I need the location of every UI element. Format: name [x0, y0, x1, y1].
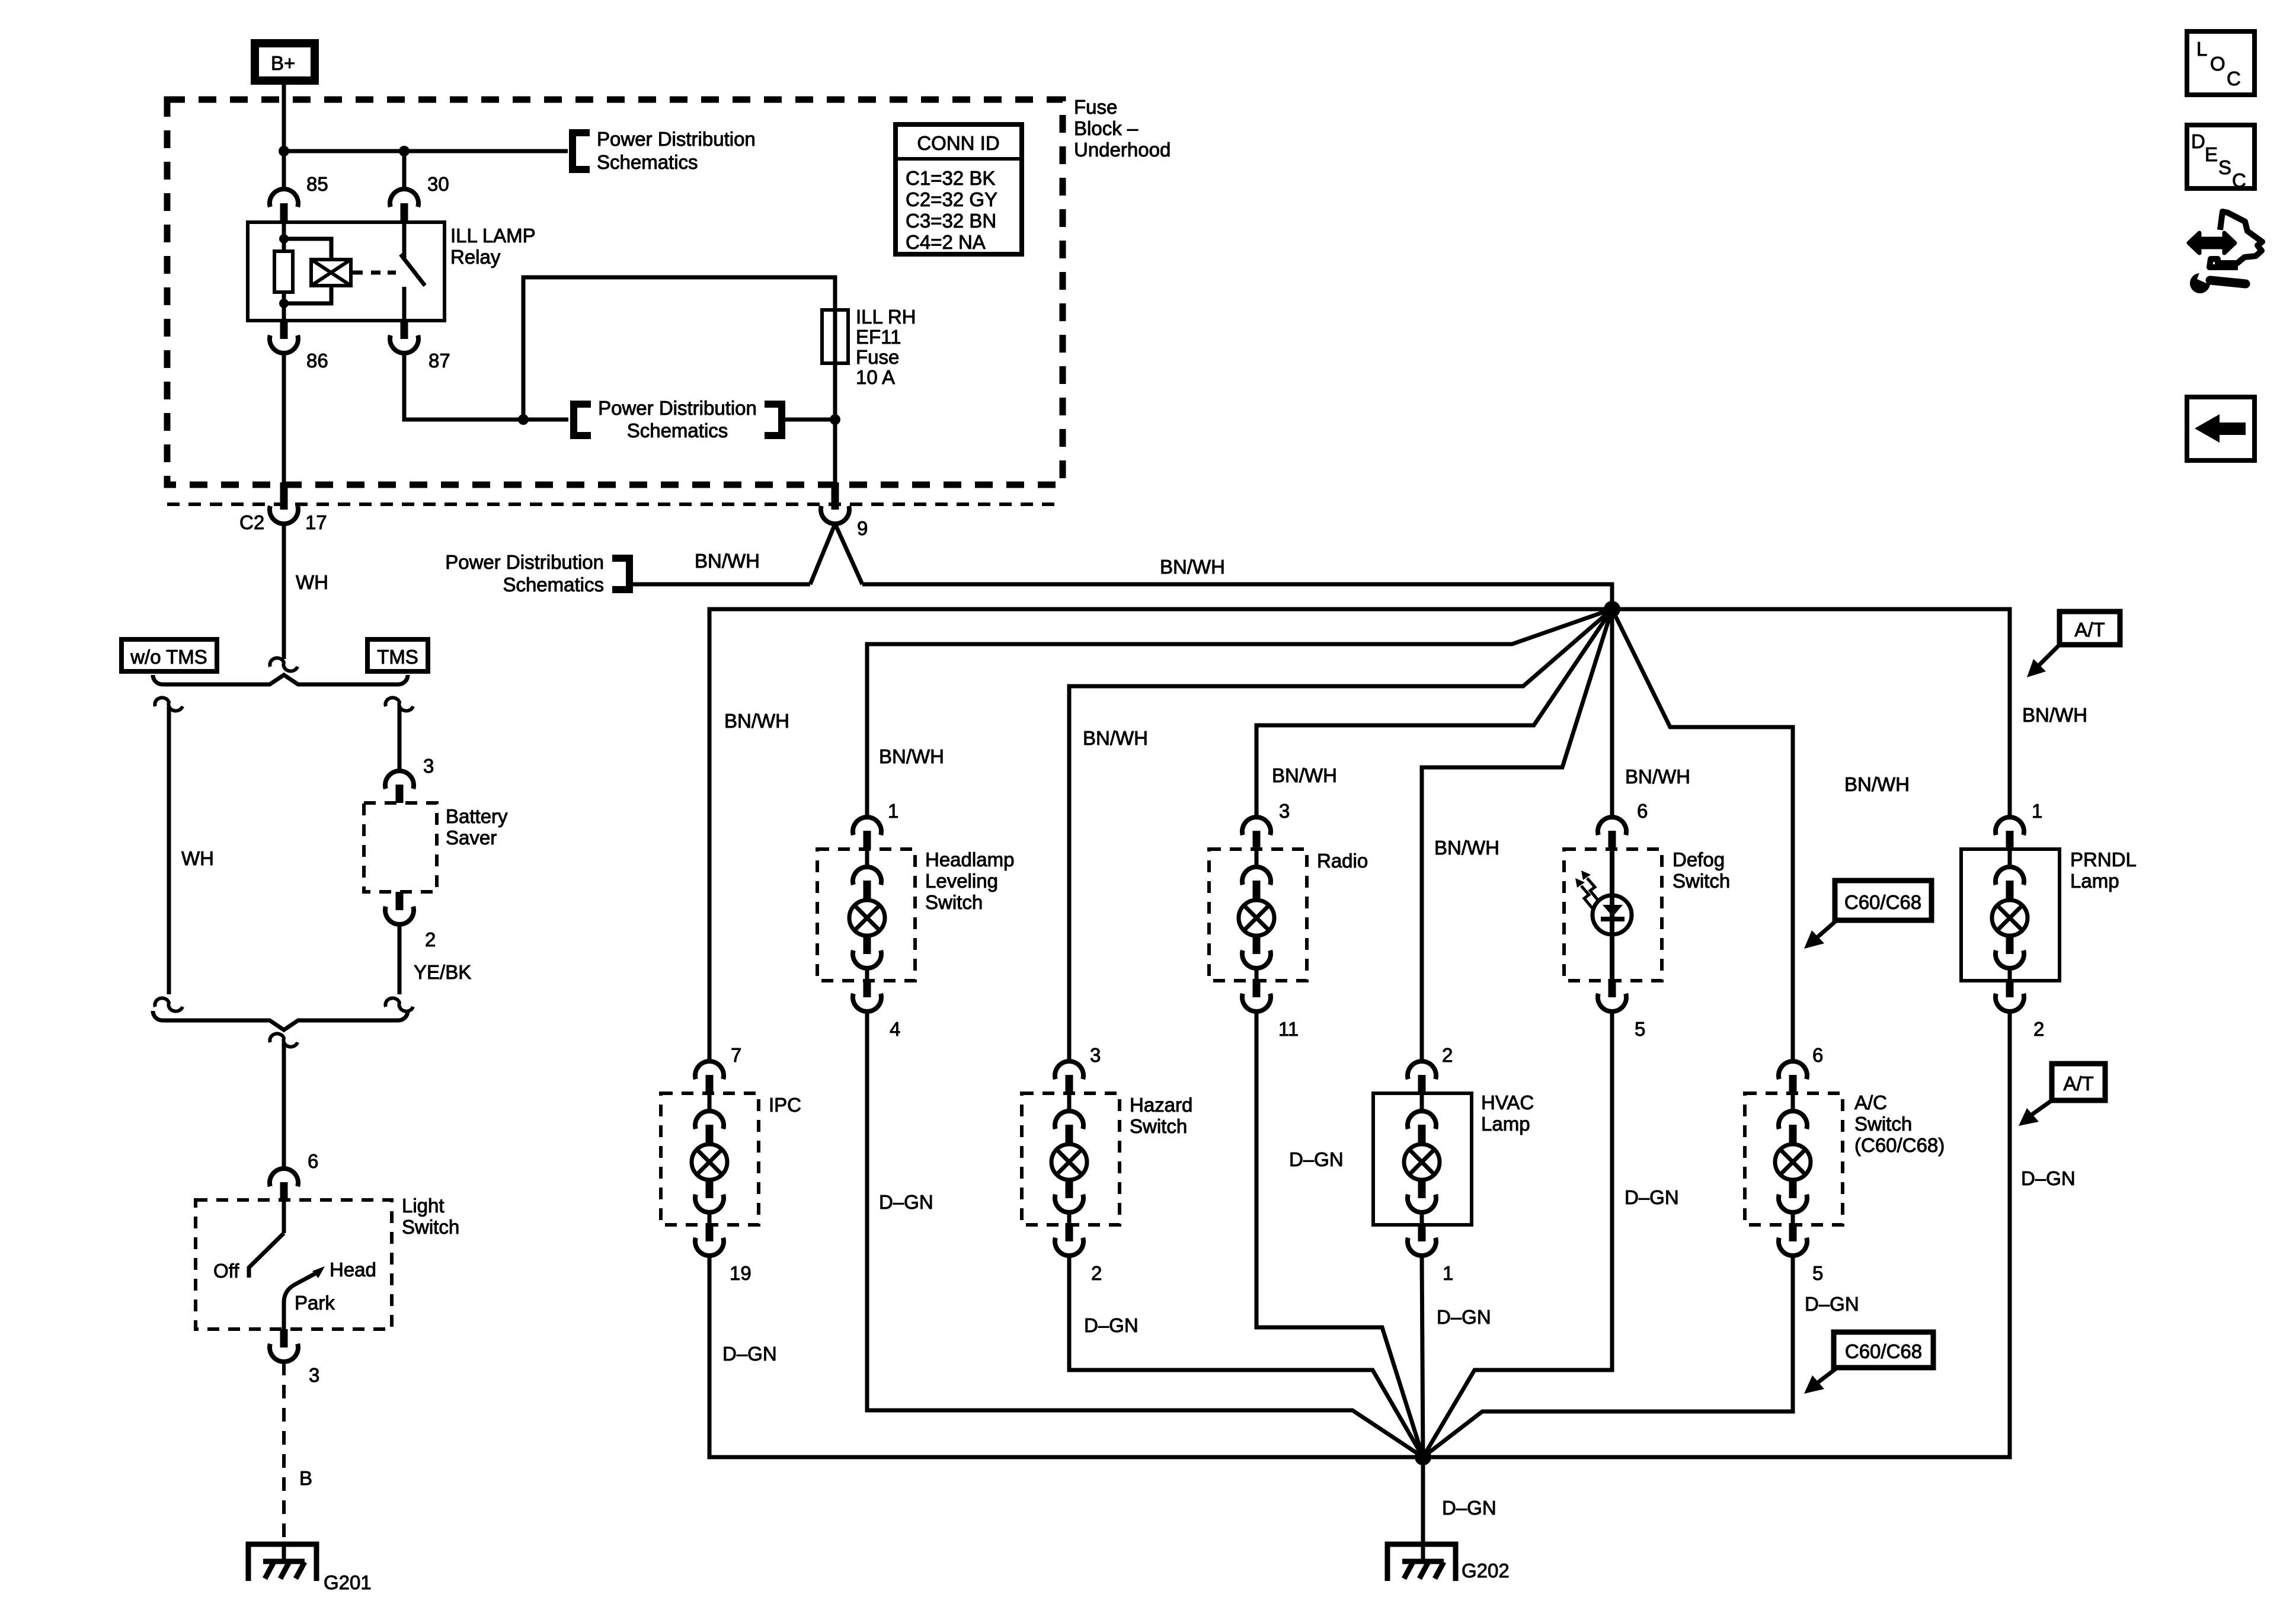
svg-text:BN/WH: BN/WH [1434, 837, 1499, 859]
switch: light switch Off/Park/Head [213, 1200, 376, 1329]
connector headlamp inner top [853, 849, 881, 899]
svg-text:C: C [2232, 169, 2246, 191]
wire: coil to switch mechanical link [351, 271, 363, 275]
callout box C60/C68 (top) [1804, 881, 1932, 949]
svg-text:Schematics: Schematics [597, 151, 698, 173]
connector HVAC pin 1 [1408, 1223, 1453, 1284]
svg-text:2: 2 [1091, 1262, 1102, 1284]
svg-text:3: 3 [1090, 1044, 1101, 1066]
svg-text:17: 17 [305, 511, 327, 533]
table: CONN ID [896, 124, 1022, 254]
svg-text:Off: Off [213, 1260, 239, 1282]
svg-text:Headlamp: Headlamp [925, 849, 1014, 870]
svg-text:Switch: Switch [1854, 1113, 1912, 1135]
node: ground junction [1415, 1449, 1431, 1465]
svg-text:7: 7 [731, 1044, 741, 1066]
svg-text:Battery: Battery [446, 805, 508, 827]
LED: defog indicator [1575, 849, 1632, 980]
connector defog pin 6 [1598, 800, 1648, 849]
wire: ray to A/C switch [1612, 609, 1793, 1062]
svg-text:Schematics: Schematics [503, 574, 604, 596]
svg-text:C2: C2 [239, 511, 264, 533]
splice curl below merge [270, 1033, 298, 1046]
svg-text:BN/WH: BN/WH [1625, 766, 1690, 788]
svg-text:A/T: A/T [2074, 619, 2105, 641]
svg-text:D–GN: D–GN [879, 1191, 933, 1213]
connector battery saver pin 2 [385, 892, 436, 950]
wire BN/WH: Y split to main junction [862, 584, 1612, 609]
svg-text:B: B [299, 1467, 312, 1489]
connector defog pin 5 [1598, 979, 1645, 1040]
svg-text:WH: WH [181, 847, 214, 869]
icon: LOC navigation box [2187, 31, 2255, 95]
light switch dashed box [196, 1200, 392, 1329]
connector light switch pin 3 [270, 1329, 319, 1386]
resistor: relay coil resistor [274, 251, 293, 292]
svg-text:Switch: Switch [925, 891, 983, 913]
connector PRNDL inner top [1996, 849, 2024, 899]
wire D-GN: headlamp pin 4 to ground junction [867, 1012, 1423, 1457]
fuse block underhood dashed border [167, 100, 1063, 485]
hazard switch: dashed box [1022, 1093, 1120, 1225]
svg-text:Park: Park [295, 1292, 335, 1314]
connector IPC pin 7 [695, 1044, 741, 1093]
svg-text:BN/WH: BN/WH [1272, 764, 1337, 786]
wire: ray to HVAC lamp [1422, 609, 1612, 1062]
wire: main bus left to IPC drop [709, 609, 1612, 1061]
svg-text:5: 5 [1635, 1018, 1645, 1040]
svg-text:6: 6 [308, 1150, 318, 1172]
connector HVAC pin 2 [1408, 1044, 1453, 1093]
connector headlamp pin 4 [853, 979, 900, 1040]
brace: option merge bottom [153, 1011, 408, 1030]
battery saver dashed box [364, 803, 437, 892]
svg-text:86: 86 [306, 350, 328, 372]
svg-text:PRNDL: PRNDL [2070, 849, 2137, 870]
connector pin 87 [390, 321, 450, 372]
connector headlamp inner bottom [853, 936, 881, 980]
wire D-GN: A/C pin 5 to ground junction [1423, 1256, 1793, 1457]
wire D-GN: HVAC pin 1 to ground junction [1422, 1256, 1423, 1457]
option box: w/o TMS [121, 639, 217, 671]
svg-text:3: 3 [423, 755, 434, 777]
svg-text:B+: B+ [271, 52, 295, 74]
svg-text:L: L [2196, 38, 2207, 60]
svg-text:HVAC: HVAC [1481, 1092, 1534, 1113]
svg-text:Switch: Switch [1130, 1115, 1187, 1137]
svg-text:Head: Head [330, 1259, 376, 1281]
svg-text:(C60/C68): (C60/C68) [1854, 1134, 1945, 1156]
svg-text:IPC: IPC [769, 1094, 801, 1116]
svg-text:D–GN: D–GN [2021, 1167, 2076, 1189]
svg-text:11: 11 [1278, 1018, 1299, 1040]
node: B+ feed junction [279, 146, 289, 156]
svg-text:D–GN: D–GN [1437, 1306, 1491, 1328]
svg-text:3: 3 [1279, 800, 1290, 822]
connector A/C inner top [1779, 1093, 1807, 1143]
connector radio pin 11 [1242, 979, 1299, 1040]
wire: TMS branch down to battery saver [398, 706, 402, 771]
lamp: HVAC illumination [1404, 1144, 1440, 1180]
connector pin 30 [390, 173, 449, 222]
connector A/C pin 6 [1779, 1044, 1823, 1093]
wire: ray to headlamp leveling switch [867, 609, 1612, 818]
svg-text:85: 85 [306, 173, 328, 195]
connector HVAC inner top [1408, 1093, 1436, 1143]
connector hazard pin 2 [1055, 1223, 1102, 1284]
callout box A/T (bottom) [2019, 1064, 2105, 1126]
ground G202 [1387, 1544, 1510, 1582]
splice curl left branch top [155, 697, 183, 710]
wire D-GN: PRNDL pin 2 to ground junction [1423, 1012, 2010, 1457]
wire: ray to radio [1256, 609, 1612, 818]
svg-text:BN/WH: BN/WH [1083, 727, 1148, 749]
wire D-GN: radio pin 11 to ground junction [1256, 1012, 1423, 1457]
IPC: dashed box [661, 1093, 759, 1225]
wire: feed to pin 30 branch [284, 149, 568, 153]
svg-text:BN/WH: BN/WH [879, 745, 944, 767]
B+ battery feed symbol [255, 43, 315, 81]
PRNDL lamp: solid box [1961, 849, 2060, 981]
lamp: hazard illumination [1051, 1144, 1087, 1180]
svg-text:D–GN: D–GN [722, 1343, 777, 1365]
svg-text:1: 1 [888, 800, 898, 822]
svg-text:D–GN: D–GN [1625, 1186, 1679, 1208]
wire D-GN: junction to G202 [1421, 1457, 1425, 1544]
connector IPC inner bottom [695, 1180, 724, 1224]
wire: fuse bottom to pin 9 [833, 363, 837, 486]
svg-text:5: 5 [1812, 1262, 1823, 1284]
wire: branch down to pin 30 [402, 151, 407, 190]
bracket: power distribution schematics (pin 9 side) [612, 558, 629, 590]
ground G201 [248, 1543, 372, 1593]
connector hazard pin 3 [1055, 1044, 1101, 1093]
wire: B+ down to relay pin 85 [282, 81, 286, 190]
node: main BN/WH junction [1604, 601, 1620, 617]
svg-text:1: 1 [2032, 800, 2042, 822]
wire D-GN: IPC pin 19 to ground junction [709, 1256, 1423, 1457]
bracket pair: power distribution schematics (middle) [574, 404, 591, 436]
svg-text:Switch: Switch [1673, 870, 1730, 892]
svg-text:TMS: TMS [377, 646, 418, 668]
svg-text:6: 6 [1637, 800, 1648, 822]
connector PRNDL pin 2 [1996, 979, 2044, 1040]
svg-text:WH: WH [296, 571, 328, 593]
node: coil bottom [279, 299, 289, 308]
connector C2 pin 17 [239, 482, 327, 533]
svg-text:30: 30 [427, 173, 449, 195]
svg-text:2: 2 [425, 929, 436, 950]
splice curl above brace [270, 658, 298, 671]
svg-text:Underhood: Underhood [1074, 139, 1171, 161]
wire YE/BK: battery saver to merge [398, 924, 402, 994]
svg-text:D–GN: D–GN [1442, 1497, 1496, 1519]
callout box A/T (top) [2027, 612, 2120, 677]
option box: TMS [367, 639, 428, 671]
svg-text:Defog: Defog [1673, 849, 1725, 870]
connector pin 9 with Y split [810, 482, 868, 584]
wire: ray to hazard switch [1069, 609, 1612, 1062]
connector IPC pin 19 [695, 1223, 752, 1284]
connector radio inner bottom [1242, 936, 1271, 980]
wire: branch to coil bottom [284, 286, 331, 303]
splice curl right branch bottom [385, 998, 413, 1011]
connector hazard inner bottom [1055, 1180, 1083, 1224]
coil: relay solenoid winding [311, 260, 351, 286]
svg-text:EF11: EF11 [856, 326, 901, 348]
bracket: power distribution schematics (top) [573, 133, 590, 169]
svg-text:C2=32 GY: C2=32 GY [906, 188, 997, 210]
connector hazard inner top [1055, 1093, 1083, 1143]
wire: loop up and over to fuse [523, 277, 835, 420]
svg-text:D–GN: D–GN [1289, 1148, 1344, 1170]
connector A/C inner bottom [1779, 1180, 1807, 1224]
svg-text:2: 2 [1442, 1044, 1453, 1066]
svg-text:YE/BK: YE/BK [414, 961, 471, 983]
node: pin 87 tie junction [518, 414, 529, 425]
splice curl left branch bottom [155, 998, 183, 1011]
wire: connector row dashed line [167, 502, 1063, 506]
A/C switch: dashed box [1745, 1093, 1843, 1225]
svg-text:C: C [2227, 68, 2241, 89]
node: pin 30 branch junction [399, 146, 410, 156]
wire: branch to coil top [284, 239, 331, 260]
svg-text:Lamp: Lamp [1481, 1113, 1530, 1135]
connector radio pin 3 [1242, 800, 1290, 849]
svg-text:Schematics: Schematics [627, 420, 728, 441]
wire: relay coil bottom lead [282, 292, 286, 321]
wire D-GN: defog pin 5 to ground junction [1423, 1012, 1612, 1457]
svg-text:A/C: A/C [1854, 1092, 1887, 1113]
svg-text:4: 4 [890, 1018, 900, 1040]
svg-text:6: 6 [1812, 1044, 1823, 1066]
HVAC lamp: solid box [1373, 1093, 1472, 1225]
svg-text:Relay: Relay [450, 246, 501, 268]
svg-text:S: S [2218, 156, 2231, 178]
svg-text:C60/C68: C60/C68 [1844, 891, 1921, 913]
svg-text:Leveling: Leveling [925, 870, 998, 892]
svg-text:ILL RH: ILL RH [856, 306, 916, 328]
svg-text:1: 1 [1443, 1262, 1453, 1284]
wire: drop to defog switch [1610, 609, 1614, 818]
lamp: A/C illumination [1775, 1144, 1811, 1180]
svg-text:BN/WH: BN/WH [1844, 773, 1910, 795]
connector radio inner top [1242, 849, 1271, 899]
svg-text:Fuse: Fuse [1074, 96, 1117, 118]
svg-text:3: 3 [309, 1364, 319, 1386]
connector headlamp pin 1 [853, 800, 898, 849]
svg-text:G202: G202 [1462, 1560, 1510, 1582]
wire: bracket to fuse junction [782, 418, 835, 422]
svg-text:Lamp: Lamp [2070, 870, 2119, 892]
svg-text:10 A: 10 A [856, 366, 895, 388]
radio: dashed box [1209, 849, 1307, 981]
fuse EF11: ILL RH fuse 10A [822, 306, 916, 388]
wire: main bus right to PRNDL drop [1612, 609, 2010, 818]
svg-text:Saver: Saver [446, 827, 497, 849]
svg-text:CONN ID: CONN ID [917, 132, 999, 154]
svg-text:Radio: Radio [1317, 850, 1368, 872]
connector light switch pin 6 [270, 1150, 318, 1201]
svg-text:G201: G201 [324, 1571, 372, 1593]
svg-text:BN/WH: BN/WH [695, 550, 760, 572]
lamp: radio illumination [1239, 900, 1274, 936]
svg-text:Block –: Block – [1074, 117, 1139, 139]
svg-text:O: O [2210, 53, 2225, 75]
wire B: dashed to ground [282, 1362, 286, 1543]
splice curl right branch top [385, 697, 413, 710]
connector PRNDL pin 1 [1996, 800, 2042, 849]
svg-text:A/T: A/T [2063, 1073, 2093, 1094]
svg-text:Power Distribution: Power Distribution [445, 551, 604, 573]
connector HVAC inner bottom [1408, 1180, 1436, 1224]
svg-text:D–GN: D–GN [1805, 1293, 1859, 1315]
wire BN/WH: bracket to Y split [629, 582, 810, 587]
svg-text:19: 19 [730, 1262, 752, 1284]
svg-text:87: 87 [428, 350, 450, 372]
lamp: PRNDL illumination [1992, 900, 2028, 936]
svg-text:C3=32 BN: C3=32 BN [906, 210, 996, 232]
icon: back arrow box [2187, 397, 2255, 460]
connector PRNDL inner bottom [1996, 936, 2024, 980]
icon: DESC navigation box [2187, 125, 2255, 191]
icon: service hand with double arrow and wrench [2189, 212, 2262, 293]
lamp: headlamp leveling illumination [849, 900, 885, 936]
svg-text:ILL LAMP: ILL LAMP [450, 225, 536, 247]
svg-text:Light: Light [402, 1195, 445, 1217]
wire WH: w/o TMS branch [167, 706, 171, 994]
svg-text:BN/WH: BN/WH [1160, 556, 1225, 578]
node: fuse output junction [830, 414, 840, 425]
wire: pin 87 to power distribution tie [404, 353, 568, 420]
svg-text:Power Distribution: Power Distribution [597, 128, 756, 150]
svg-text:Power Distribution: Power Distribution [598, 397, 757, 419]
connector IPC inner top [695, 1093, 724, 1143]
svg-text:w/o TMS: w/o TMS [130, 646, 207, 668]
node: coil top [279, 234, 289, 244]
headlamp leveling switch: dashed box [817, 849, 915, 981]
svg-text:Fuse: Fuse [856, 346, 899, 368]
brace: option split top [153, 675, 408, 684]
connector pin 86 [270, 321, 328, 372]
svg-text:C60/C68: C60/C68 [1845, 1340, 1922, 1362]
switch: relay contact arm [402, 222, 407, 259]
relay U1: ILL LAMP Relay box [248, 222, 445, 321]
lamp: IPC illumination [692, 1144, 727, 1180]
connector A/C pin 5 [1779, 1223, 1823, 1284]
svg-text:2: 2 [2033, 1018, 2044, 1040]
callout box C60/C68 (bottom) [1804, 1332, 1933, 1394]
wire WH: C2-17 down to split [282, 524, 286, 659]
svg-text:Hazard: Hazard [1130, 1094, 1192, 1116]
wire: pin 86 down to connector C2 [282, 353, 286, 486]
svg-text:9: 9 [857, 517, 868, 539]
connector battery saver pin 3 [385, 755, 434, 803]
wire: merge down to light switch [282, 1042, 286, 1169]
wire D-GN: hazard pin 2 to ground junction [1069, 1256, 1423, 1457]
defog switch: dashed box [1564, 849, 1662, 981]
svg-text:BN/WH: BN/WH [724, 710, 789, 732]
svg-text:Switch: Switch [402, 1216, 459, 1238]
wire: relay coil top lead [282, 222, 286, 251]
svg-text:D–GN: D–GN [1084, 1314, 1139, 1336]
svg-text:BN/WH: BN/WH [2022, 704, 2087, 726]
svg-text:C1=32 BK: C1=32 BK [906, 167, 995, 189]
connector pin 85 [270, 173, 328, 222]
svg-text:E: E [2205, 143, 2218, 165]
svg-text:C4=2 NA: C4=2 NA [906, 231, 986, 253]
svg-text:D: D [2191, 130, 2205, 152]
